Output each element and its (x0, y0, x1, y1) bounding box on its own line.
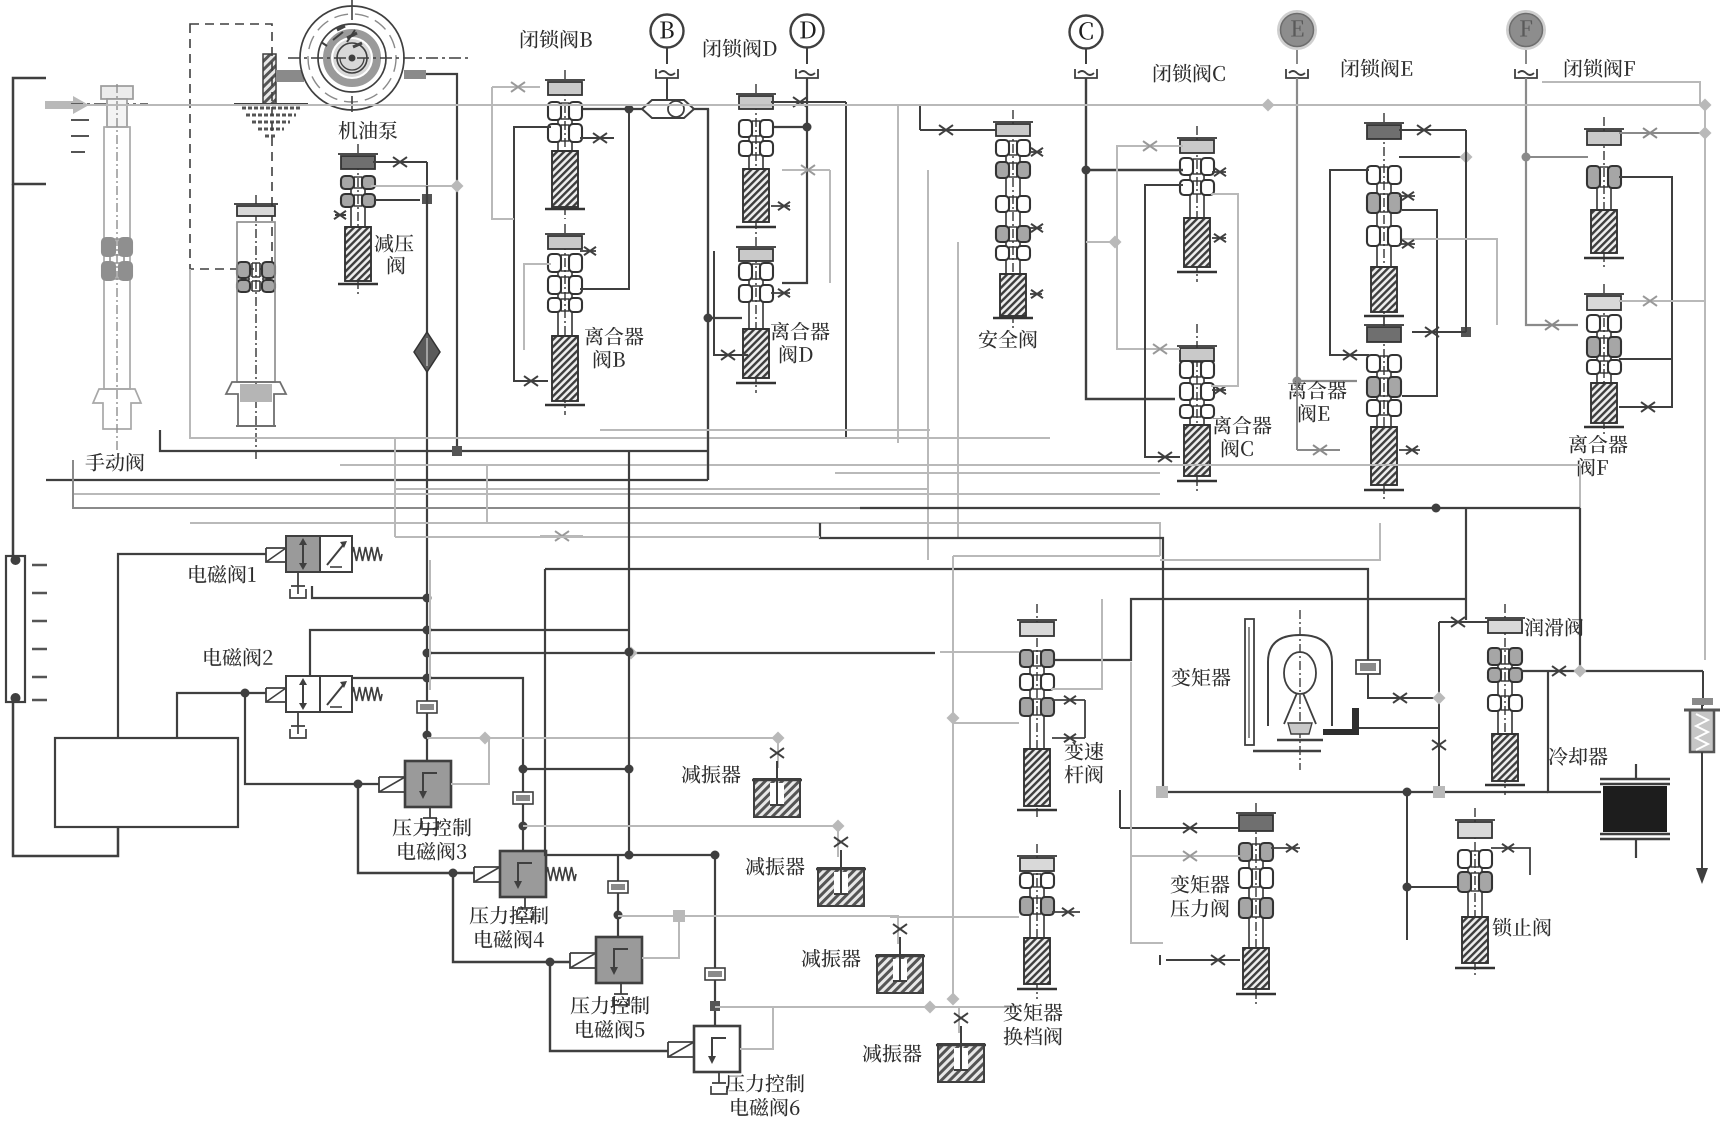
wire ECU to sol2 (177, 693, 266, 738)
gray verticals top (897, 105, 899, 443)
rail y494 light (73, 493, 1160, 495)
wire B down (666, 48, 668, 64)
oil pump suction strainer (263, 54, 276, 104)
pressure control solenoid 6 压力控制电磁阀6 (668, 1026, 740, 1094)
label 闭锁阀C (1154, 64, 1225, 83)
y855 rail (545, 569, 715, 855)
safety valve 安全阀 (993, 110, 1033, 328)
x708 rail (707, 109, 709, 480)
pressure control solenoid 5 压力控制电磁阀5 (570, 937, 642, 1005)
wires 润滑阀 (1439, 621, 1488, 623)
vent under C (1075, 69, 1097, 78)
vent under E (1286, 69, 1308, 78)
wires around C valves (1086, 169, 1183, 171)
label 润滑阀 (1525, 618, 1583, 637)
bottom gray loop (429, 560, 431, 690)
pressure control solenoid 3 压力控制电磁阀3 (379, 761, 451, 829)
label 闭锁阀E (1342, 59, 1412, 78)
wires around D valves (771, 101, 846, 103)
gray rails bottom right (890, 916, 1019, 918)
label 闭锁阀F (1565, 59, 1635, 78)
vent under F (1515, 69, 1537, 78)
lock valve D 闭锁阀D (736, 84, 776, 237)
wires around safety valve (920, 129, 996, 131)
rail y480 dark (46, 479, 708, 481)
label 手动阀 (86, 453, 144, 472)
rail y523 light (190, 523, 1160, 556)
staircase feeds from y769 (523, 768, 629, 770)
clutch valve C 离合器阀C (1177, 324, 1217, 491)
x618 drop to sol5 (617, 855, 619, 937)
sol5 right gray stub (642, 916, 679, 958)
wire: left supply down to filter and ECU (13, 184, 118, 856)
lock-up valve 锁止阀 (1455, 808, 1495, 978)
left inlet bracket (13, 78, 46, 184)
solenoid valve 2 电磁阀2 (266, 676, 382, 738)
label 离合器阀F (1569, 435, 1628, 454)
rails y653 (427, 652, 935, 654)
label 离合器阀E (1288, 381, 1347, 400)
y556 light link (953, 555, 1160, 557)
manual valve left column (93, 86, 141, 429)
wire to sol3 connector (245, 693, 379, 784)
label 锁止阀 (1493, 918, 1551, 937)
wire F down (1525, 50, 1527, 64)
orifice on x427 (417, 701, 437, 713)
extra mid-band rails (600, 429, 930, 431)
damper 4 减振器 (936, 1013, 986, 1082)
circle C (1070, 16, 1103, 49)
rail y508 (73, 460, 860, 508)
label 闭锁阀D (704, 39, 777, 58)
wire pill to valve B (580, 108, 642, 110)
wires near 减压阀 (373, 161, 427, 163)
label 压力控制电磁阀6 (726, 1074, 804, 1092)
wire pill right to x708 rail (694, 109, 708, 480)
lock valve C 闭锁阀C (1177, 126, 1217, 282)
y599 rail (1051, 599, 1466, 660)
wire relief down to arrow (1701, 752, 1703, 868)
lock valve E 闭锁阀E (1364, 113, 1404, 326)
wires around F valves (1619, 132, 1705, 134)
label 冷却器 (1549, 747, 1608, 766)
pump outlet wire (404, 70, 426, 79)
label 变矩器换档阀 (1004, 1003, 1063, 1022)
clutch valve D 离合器阀D (736, 237, 776, 393)
TC pressure valve 变矩器压力阀 (1236, 803, 1276, 1004)
wires around E valves (1399, 129, 1440, 131)
label 机油泵 (339, 121, 398, 139)
rail y465 light (340, 465, 1580, 508)
light top rail y105 (49, 105, 1705, 140)
label 变速杆阀 (1065, 742, 1104, 761)
label 压力控制电磁阀5 (571, 996, 649, 1014)
wire D down (806, 48, 808, 64)
sol3 right gray stub (451, 738, 489, 784)
rail y538 dark (820, 523, 1163, 790)
pressure control solenoid 4 压力控制电磁阀4 (474, 851, 576, 919)
torque converter 变矩器 (1245, 610, 1439, 770)
lock valve F 闭锁阀F (1584, 117, 1624, 268)
damper 2 减振器 (816, 837, 866, 906)
x715 drop to sol6 (714, 855, 716, 1026)
wire ECU to sol1 (118, 554, 266, 738)
solenoid valve 1 电磁阀1 (266, 536, 382, 598)
circle F (1506, 10, 1546, 50)
label 压力控制电磁阀4 (470, 906, 548, 924)
staircase to sol4 (358, 784, 474, 873)
label 变矩器 (1172, 668, 1231, 687)
lubrication valve 润滑阀 (1485, 604, 1525, 795)
wire sol1 out (312, 586, 427, 598)
lock valve B 闭锁阀B (545, 70, 585, 219)
inlet arrow (45, 96, 89, 114)
dash-dot pilot line (71, 103, 148, 105)
label 减振器4 (863, 1044, 922, 1063)
clutch valve B 离合器阀B (545, 224, 585, 415)
y792 rail (1162, 791, 1548, 793)
wires around B valves (514, 127, 551, 381)
label 减振器1 (682, 765, 741, 784)
label 减压阀 (375, 234, 414, 252)
sol6 right gray stub (740, 1007, 773, 1049)
label 压力控制电磁阀3 (393, 818, 471, 836)
circle E (1277, 10, 1317, 50)
clutch valve E 离合器阀E (1364, 315, 1404, 500)
wires 变矩器压力阀 (1120, 827, 1240, 829)
label 减振器2 (746, 857, 805, 876)
check valve diamond (414, 332, 440, 372)
label 变矩器压力阀 (1171, 875, 1230, 894)
cooler 冷却器 (1600, 764, 1670, 858)
wire sol2 out right (352, 678, 523, 850)
vent under D (796, 69, 818, 78)
wire C down (1085, 49, 1087, 64)
wires 变速杆阀 (1052, 699, 1085, 701)
vent under B (656, 69, 678, 78)
orifice on x523 (513, 792, 533, 804)
label 减振器3 (802, 949, 861, 968)
manual valve spool (234, 195, 278, 462)
y569 rail (545, 569, 1368, 662)
wire sol2 top loop (310, 630, 629, 676)
suction filter left (6, 555, 47, 703)
rail y451 dark (160, 430, 708, 451)
dashed pilot box (190, 24, 272, 269)
circle B (651, 15, 684, 48)
TC shift valve 变矩器换档阀 (1017, 844, 1057, 999)
shift lever valve 变速杆阀 (1017, 604, 1057, 820)
label 电磁阀2 (204, 648, 272, 667)
x1580 drop (1579, 508, 1581, 671)
ECU bottom wire to connectors 4/5/6 (449, 869, 458, 878)
right relief filter (1684, 698, 1720, 752)
label 安全阀 (979, 330, 1037, 349)
1466 drop (1465, 508, 1467, 620)
damper 3 减振器 (875, 924, 925, 993)
manual valve outer sleeve (102, 84, 132, 450)
damper 1 减振器 (752, 748, 802, 817)
oil pump 机油泵 (288, 0, 470, 112)
pill accumulator (642, 100, 694, 118)
gray pilot lines to dampers (427, 737, 778, 739)
pressure reducing valve 减压阀 (338, 144, 378, 294)
wires 锁止阀 (1407, 886, 1459, 888)
label 离合器阀C (1213, 416, 1272, 435)
wire E down (1296, 50, 1298, 64)
label 电磁阀1 (189, 565, 255, 584)
main vertical pilot rail x427 (426, 186, 428, 761)
label 离合器阀D (771, 322, 830, 341)
circle D (791, 15, 824, 48)
label 闭锁阀B (521, 30, 592, 49)
clutch valve F 离合器阀F (1584, 284, 1624, 437)
rail y438 light (190, 269, 1050, 438)
orifice right of TC (1356, 660, 1380, 674)
ECU box (55, 738, 238, 827)
label 离合器阀B (585, 327, 644, 346)
